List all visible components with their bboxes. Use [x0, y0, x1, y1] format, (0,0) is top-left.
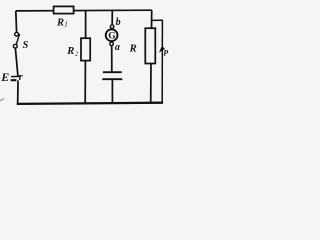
- resistor R1: [54, 6, 74, 13]
- galvanometer G: [106, 29, 118, 41]
- battery E,r: [11, 76, 20, 80]
- scan mark bottom-left: [0, 99, 4, 101]
- capacitor C: [102, 72, 122, 79]
- svg-text:R: R: [56, 17, 64, 28]
- wire G to capacitor: [111, 46, 113, 72]
- svg-text:G: G: [108, 32, 116, 42]
- wire branch R2 bottom: [84, 61, 86, 103]
- wire branch R right top: [151, 10, 153, 28]
- wire slider vertical: [161, 20, 163, 102]
- wire capacitor to bottom: [111, 80, 113, 103]
- wire slider jog: [152, 19, 163, 21]
- svg-text:1: 1: [64, 20, 68, 28]
- galvanometer G terminal b: [110, 25, 114, 29]
- galvanometer G terminal a: [110, 42, 114, 46]
- svg-text:R: R: [129, 43, 137, 54]
- svg-text:S: S: [23, 40, 29, 51]
- svg-text:P: P: [163, 49, 168, 58]
- svg-text:b: b: [116, 17, 121, 28]
- svg-text:2: 2: [75, 51, 79, 58]
- wire branch R2 top: [85, 11, 87, 39]
- wire left lower (battery to bottom): [17, 80, 19, 103]
- switch S: [13, 32, 19, 48]
- svg-text:R: R: [66, 46, 74, 57]
- resistor R (rheostat): [145, 28, 155, 63]
- svg-text:E: E: [0, 70, 9, 84]
- svg-text:r: r: [19, 72, 23, 83]
- wire left middle (switch to battery): [15, 48, 18, 75]
- wire left upper (to switch): [15, 11, 18, 32]
- resistor R2: [81, 38, 90, 60]
- wire top: [16, 9, 152, 12]
- wire branch R bottom: [150, 64, 152, 103]
- wire bottom: [17, 103, 163, 104]
- svg-text:a: a: [115, 42, 120, 53]
- slider arrow P: [159, 46, 165, 53]
- wire branch G top: [111, 11, 113, 26]
